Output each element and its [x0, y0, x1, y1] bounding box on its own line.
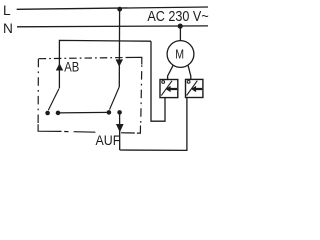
- switch S1 left contact dot: [45, 111, 50, 116]
- svg-text:AC 230 V~: AC 230 V~: [147, 9, 208, 25]
- switch enclosure dashed box bottom edge dash: [121, 132, 135, 134]
- limit switch S3 pivot circle: [162, 81, 165, 84]
- limit switch S3 box: [160, 80, 178, 98]
- svg-text:M: M: [175, 47, 184, 62]
- junction dot on L: [117, 7, 122, 12]
- svg-text:AB: AB: [64, 60, 79, 75]
- wire motor to limit switch S4: [188, 65, 191, 79]
- switch enclosure dashed box bottom edge dash: [74, 131, 96, 134]
- switch S1 right contact dot: [56, 111, 61, 116]
- switch enclosure dashed box bottom edge dash: [64, 131, 68, 133]
- switch enclosure dashed box top edge: [39, 58, 127, 59]
- switch S1 up arrow AB: [56, 63, 63, 70]
- svg-text:L: L: [3, 3, 11, 18]
- switch S2 down arrow AUF: [116, 124, 124, 132]
- switch S1 blade: [48, 89, 59, 110]
- wire S2 right dot down AUF path: [119, 112, 121, 150]
- switch enclosure dashed box right edge: [141, 65, 142, 126]
- switch S2 left contact dot: [107, 110, 112, 115]
- wire AUF path bottom to limit switch S4: [120, 98, 187, 151]
- wire motor to limit switch S3: [168, 65, 174, 79]
- limit switch S3 contact blade: [161, 81, 172, 96]
- wire N line: [17, 25, 208, 28]
- switch enclosure dashed box top right corner: [127, 57, 142, 64]
- limit switch S4 actuation arrow: [191, 86, 202, 92]
- wire L dot down to switch S2: [118, 9, 120, 87]
- motor M1 circle: [167, 41, 194, 68]
- switch enclosure dashed box bottom right corner: [137, 126, 141, 134]
- switch S2 right contact dot: [117, 110, 122, 115]
- limit switch S4 contact blade: [187, 81, 198, 96]
- wire between S1 and S2 contacts: [58, 111, 109, 114]
- switch enclosure dashed box bottom left corner: [38, 124, 61, 131]
- junction dot on N: [178, 24, 183, 29]
- switch S2 blade: [110, 87, 120, 110]
- wire L line: [17, 7, 208, 9]
- svg-text:AUF: AUF: [96, 133, 121, 148]
- switch S2 down arrow: [116, 59, 124, 66]
- limit switch S4 box: [186, 79, 203, 97]
- limit switch S4 pivot circle: [187, 81, 190, 84]
- svg-text:N: N: [3, 21, 13, 36]
- wire AB path down to limit switch S3: [151, 41, 165, 121]
- switch S1 wire top corner to AB line: [59, 40, 151, 88]
- limit switch S3 actuation arrow: [166, 86, 178, 92]
- wire from N dot to motor: [179, 26, 181, 40]
- switch enclosure dashed box left edge: [37, 59, 39, 124]
